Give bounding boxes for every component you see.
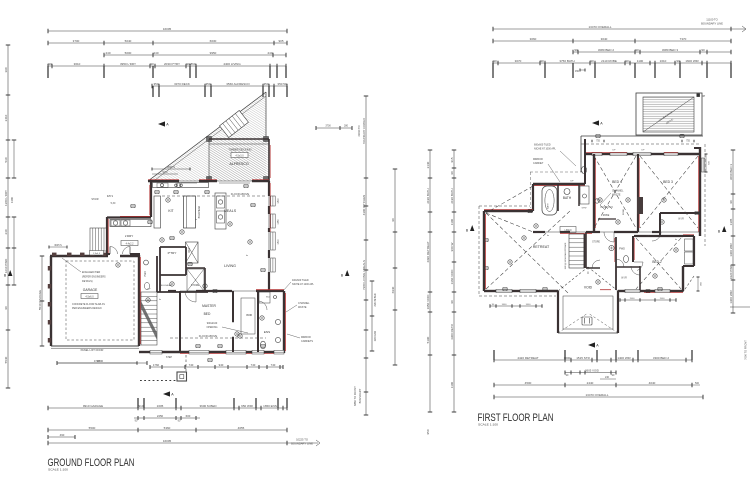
- svg-text:5540: 5540: [4, 356, 8, 363]
- svg-text:500: 500: [695, 382, 700, 385]
- svg-text:2410: 2410: [4, 114, 8, 121]
- svg-text:WASTE: WASTE: [298, 306, 307, 309]
- svg-text:4500: 4500: [525, 381, 532, 385]
- svg-text:DETAILS): DETAILS): [82, 280, 93, 283]
- svg-text:1600: 1600: [526, 304, 532, 306]
- svg-text:1300 WIR: 1300 WIR: [729, 242, 733, 256]
- svg-text:1380 L'DRY: 1380 L'DRY: [4, 190, 8, 206]
- svg-text:5000: 5000: [125, 51, 132, 55]
- svg-text:240: 240: [105, 51, 110, 55]
- svg-text:1305: 1305: [729, 218, 733, 225]
- svg-text:240: 240: [153, 51, 158, 55]
- svg-text:3950 L'DRY: 3950 L'DRY: [120, 62, 136, 66]
- svg-text:90: 90: [493, 59, 497, 63]
- svg-text:DP: DP: [641, 150, 645, 152]
- svg-text:BOUNDARY LINE: BOUNDARY LINE: [291, 441, 313, 445]
- svg-text:10225 TO: 10225 TO: [296, 438, 308, 442]
- svg-text:1605: 1605: [157, 404, 164, 408]
- svg-text:9005 S: 9005 S: [167, 166, 175, 169]
- svg-text:600: 600: [186, 414, 191, 418]
- svg-text:MIRROR: MIRROR: [301, 336, 311, 339]
- svg-text:4.4x2.2: 4.4x2.2: [126, 242, 135, 245]
- svg-text:1100: 1100: [450, 218, 454, 225]
- svg-text:90: 90: [186, 62, 190, 66]
- svg-text:1500: 1500: [660, 298, 666, 300]
- svg-text:1350: 1350: [278, 219, 280, 225]
- svg-text:GPW: GPW: [582, 208, 587, 210]
- svg-text:915: 915: [450, 157, 454, 162]
- svg-text:5,30: 5,30: [111, 202, 116, 205]
- svg-text:5360: 5360: [164, 426, 171, 430]
- svg-text:860: 860: [190, 62, 195, 66]
- svg-text:1760: 1760: [153, 363, 160, 367]
- svg-text:4300 KITCHEN: 4300 KITCHEN: [362, 195, 366, 216]
- svg-text:1600: 1600: [502, 304, 508, 306]
- svg-text:3560 ALFRESCO: 3560 ALFRESCO: [226, 82, 250, 86]
- svg-text:ENS: ENS: [264, 330, 270, 334]
- svg-text:NICHE AT 1200 APL: NICHE AT 1200 APL: [292, 283, 315, 286]
- svg-text:DP: DP: [570, 181, 574, 183]
- svg-text:BED 2: BED 2: [652, 260, 661, 264]
- svg-text:350: 350: [263, 82, 268, 86]
- svg-text:280: 280: [344, 125, 349, 128]
- svg-text:BOUNDARY CORNER: BOUNDARY CORNER: [363, 118, 366, 144]
- svg-text:6630: 6630: [210, 39, 217, 43]
- svg-text:7000 TO FRONT: 7000 TO FRONT: [744, 340, 748, 360]
- svg-text:2960 ENS: 2960 ENS: [375, 330, 377, 341]
- svg-text:90: 90: [48, 62, 52, 66]
- svg-text:21810 TO: 21810 TO: [358, 125, 361, 136]
- svg-text:1380: 1380: [10, 196, 14, 203]
- svg-text:BOUNDARY LINE: BOUNDARY LINE: [701, 22, 723, 26]
- svg-text:90: 90: [450, 171, 454, 175]
- svg-text:2190 BATH: 2190 BATH: [426, 188, 430, 203]
- svg-text:PANEL LIFT DOOR: PANEL LIFT DOOR: [81, 348, 104, 352]
- svg-text:W.I.R: W.I.R: [678, 219, 684, 221]
- svg-text:WASTE: WASTE: [612, 194, 621, 197]
- svg-text:350 50: 350 50: [277, 82, 287, 86]
- svg-text:4040: 4040: [649, 381, 656, 385]
- svg-text:925 S: 925 S: [107, 195, 114, 198]
- svg-text:MIRROR: MIRROR: [533, 158, 543, 161]
- svg-text:MASTER: MASTER: [202, 304, 216, 308]
- svg-text:1950 VOID: 1950 VOID: [426, 294, 430, 310]
- svg-text:900x2100: 900x2100: [207, 322, 218, 325]
- svg-text:3700: 3700: [73, 39, 80, 43]
- svg-text:VOID: VOID: [584, 286, 593, 290]
- svg-text:4.5x3.0: 4.5x3.0: [235, 154, 244, 157]
- svg-text:2960 M BED: 2960 M BED: [375, 293, 377, 306]
- svg-text:ROBE: ROBE: [603, 215, 610, 217]
- svg-text:4.5x6.0: 4.5x6.0: [85, 296, 94, 299]
- svg-text:905: 905: [278, 39, 283, 43]
- svg-text:MEALS: MEALS: [224, 209, 237, 213]
- svg-text:STORE: STORE: [592, 242, 600, 244]
- svg-text:3370 DECK: 3370 DECK: [174, 82, 190, 86]
- svg-text:90: 90: [701, 48, 705, 52]
- svg-text:CHANNEL: CHANNEL: [298, 302, 310, 305]
- svg-text:350: 350: [205, 82, 210, 86]
- svg-text:950 WIR: 950 WIR: [241, 404, 254, 408]
- svg-text:400x600 TILED: 400x600 TILED: [292, 279, 309, 282]
- svg-text:3060 BED 3: 3060 BED 3: [729, 164, 733, 181]
- svg-text:(REFER ENGINEERS: (REFER ENGINEERS: [82, 276, 106, 279]
- svg-text:KIT: KIT: [168, 209, 173, 213]
- svg-text:5540 GARAGE: 5540 GARAGE: [38, 290, 42, 310]
- svg-text:BOUNDARY: BOUNDARY: [358, 388, 362, 403]
- svg-text:16005: 16005: [163, 439, 172, 443]
- svg-text:16R @ HIGH BALUSTRADE: 16R @ HIGH BALUSTRADE: [564, 242, 567, 269]
- svg-text:740: 740: [189, 363, 194, 367]
- svg-text:3060: 3060: [530, 37, 537, 41]
- svg-text:940: 940: [219, 363, 224, 367]
- svg-text:OPENING: OPENING: [206, 326, 217, 329]
- svg-text:240: 240: [4, 229, 8, 234]
- svg-text:90: 90: [574, 48, 578, 52]
- svg-text:CABINET: CABINET: [533, 162, 544, 165]
- svg-text:13470 OVERALL: 13470 OVERALL: [588, 25, 611, 29]
- svg-text:90: 90: [391, 218, 395, 222]
- svg-text:ENGAGED PIER: ENGAGED PIER: [82, 271, 100, 274]
- svg-text:3070: 3070: [515, 59, 522, 63]
- svg-text:GARAGE: GARAGE: [83, 288, 98, 292]
- svg-text:ROBE: ROBE: [623, 208, 625, 215]
- svg-text:3300 BED 2: 3300 BED 2: [653, 356, 670, 360]
- svg-text:TIMBER DECKING: TIMBER DECKING: [228, 148, 251, 152]
- svg-text:LINEN: LINEN: [565, 230, 572, 232]
- svg-text:1600 WIR: 1600 WIR: [685, 59, 699, 63]
- svg-text:PWD: PWD: [619, 248, 625, 251]
- svg-text:REF: REF: [189, 247, 191, 252]
- svg-text:2030 P'TRY: 2030 P'TRY: [164, 62, 180, 66]
- svg-text:9910 GARAGE: 9910 GARAGE: [83, 404, 103, 408]
- svg-text:16005: 16005: [163, 27, 172, 31]
- svg-text:9950: 9950: [210, 51, 217, 55]
- svg-text:350: 350: [153, 82, 158, 86]
- svg-text:5040: 5040: [125, 39, 132, 43]
- svg-text:BATH: BATH: [547, 203, 550, 209]
- svg-text:1100: 1100: [450, 381, 454, 388]
- svg-text:PWD: PWD: [144, 271, 147, 277]
- svg-text:BATH: BATH: [563, 196, 572, 200]
- svg-text:W.I.R: W.I.R: [621, 278, 627, 280]
- svg-text:1810: 1810: [278, 239, 280, 245]
- svg-text:DP: DP: [702, 96, 706, 98]
- svg-text:11100 TO: 11100 TO: [706, 18, 717, 22]
- svg-text:3700: 3700: [325, 125, 331, 128]
- svg-text:490: 490: [60, 433, 65, 437]
- svg-text:3080 BED 2: 3080 BED 2: [598, 48, 615, 52]
- svg-text:4390 RETREAT: 4390 RETREAT: [426, 241, 430, 262]
- svg-text:90: 90: [635, 48, 639, 52]
- svg-text:CABINETS: CABINETS: [301, 340, 313, 343]
- svg-text:950: 950: [426, 429, 430, 434]
- svg-text:DP: DP: [612, 150, 616, 152]
- svg-text:530: 530: [4, 157, 8, 162]
- svg-text:3750 BATH: 3750 BATH: [559, 59, 574, 63]
- svg-text:240: 240: [267, 51, 272, 55]
- svg-text:FLOOR ABOVE: FLOOR ABOVE: [199, 334, 218, 338]
- svg-text:90: 90: [540, 59, 544, 63]
- svg-text:FLOOR ABOVE: FLOOR ABOVE: [231, 192, 250, 196]
- svg-text:UP: UP: [147, 289, 151, 291]
- svg-text:STAIR: STAIR: [91, 198, 98, 201]
- svg-text:7280 LIVING / MEALS: 7280 LIVING / MEALS: [362, 260, 366, 290]
- svg-text:740: 740: [271, 363, 276, 367]
- svg-text:90: 90: [625, 59, 629, 63]
- svg-text:4400 LIVING: 4400 LIVING: [223, 62, 241, 66]
- svg-text:SCALE 1:100: SCALE 1:100: [478, 423, 498, 427]
- svg-text:600x600 TILED: 600x600 TILED: [534, 144, 551, 147]
- svg-text:3045 S: 3045 S: [54, 244, 62, 247]
- svg-text:13470 OVERALL: 13470 OVERALL: [585, 393, 608, 397]
- svg-text:BULKHEAD: BULKHEAD: [198, 205, 201, 218]
- svg-text:BED 4: BED 4: [612, 180, 622, 184]
- svg-text:5500: 5500: [89, 426, 96, 430]
- svg-text:6940: 6940: [391, 286, 395, 293]
- svg-text:390: 390: [4, 67, 8, 72]
- svg-text:3610: 3610: [74, 62, 81, 66]
- svg-text:1810: 1810: [278, 198, 280, 204]
- svg-text:L'DRY: L'DRY: [125, 234, 134, 238]
- svg-text:1515 STR: 1515 STR: [576, 356, 590, 360]
- svg-text:240: 240: [605, 376, 610, 379]
- svg-text:1920 PWD: 1920 PWD: [729, 264, 733, 279]
- svg-text:910: 910: [138, 404, 143, 408]
- svg-text:90: 90: [150, 62, 154, 66]
- svg-text:90: 90: [450, 300, 454, 304]
- svg-text:90: 90: [590, 59, 594, 63]
- svg-text:5190: 5190: [426, 336, 430, 343]
- svg-text:STEP: STEP: [166, 356, 173, 359]
- svg-text:1610: 1610: [660, 59, 667, 63]
- svg-text:1360 VOID: 1360 VOID: [450, 269, 454, 285]
- svg-text:3040: 3040: [601, 37, 608, 41]
- svg-text:4700: 4700: [94, 359, 101, 363]
- svg-text:1100: 1100: [637, 59, 644, 63]
- svg-text:90: 90: [4, 306, 8, 310]
- svg-text:450: 450: [575, 70, 580, 73]
- svg-text:BED 3: BED 3: [663, 180, 673, 184]
- svg-text:W70: W70: [163, 171, 169, 174]
- svg-text:1650 ENS: 1650 ENS: [263, 404, 277, 408]
- svg-text:4420 RETREAT: 4420 RETREAT: [517, 356, 538, 360]
- svg-text:1,9x4,5: 1,9x4,5: [93, 253, 101, 255]
- svg-text:PER ENGINEERS DESIGN: PER ENGINEERS DESIGN: [72, 307, 102, 310]
- svg-text:3080 BED 3: 3080 BED 3: [662, 48, 679, 52]
- svg-text:90: 90: [729, 200, 733, 204]
- svg-text:CONCRETE FLOOR SLAB AS: CONCRETE FLOOR SLAB AS: [72, 303, 105, 306]
- svg-text:P'TRY: P'TRY: [168, 251, 177, 255]
- svg-text:1400 WIR: 1400 WIR: [617, 356, 631, 360]
- svg-text:4300 RETR: 4300 RETR: [450, 323, 454, 340]
- svg-text:1210 PWD: 1210 PWD: [4, 258, 8, 273]
- svg-text:740: 740: [251, 363, 256, 367]
- svg-text:90: 90: [676, 59, 680, 63]
- svg-text:7370: 7370: [680, 37, 687, 41]
- svg-text:2440: 2440: [587, 381, 594, 385]
- svg-text:WIR: WIR: [246, 313, 253, 317]
- svg-text:2190 BATH: 2190 BATH: [450, 188, 454, 203]
- svg-text:STORE: STORE: [191, 284, 200, 287]
- svg-text:1300 WIR: 1300 WIR: [729, 289, 733, 303]
- svg-text:1500: 1500: [630, 298, 636, 300]
- svg-text:SCALE 1:100: SCALE 1:100: [48, 468, 68, 472]
- svg-text:2140: 2140: [426, 161, 430, 168]
- svg-text:2605 VOID: 2605 VOID: [585, 369, 599, 373]
- svg-text:960 W: 960 W: [450, 242, 454, 251]
- svg-text:2110 ROBE: 2110 ROBE: [601, 59, 617, 63]
- svg-text:RETREAT: RETREAT: [533, 245, 550, 249]
- svg-text:ALFRESCO: ALFRESCO: [229, 162, 249, 166]
- svg-text:LIVING: LIVING: [224, 264, 236, 268]
- svg-text:6860 TO FRONT: 6860 TO FRONT: [353, 386, 357, 406]
- svg-text:4655: 4655: [238, 426, 245, 430]
- svg-text:3600 M.BED: 3600 M.BED: [199, 404, 217, 408]
- svg-text:BED: BED: [204, 312, 211, 316]
- svg-text:2450: 2450: [157, 414, 164, 418]
- svg-text:NICHE AT 1000 APL: NICHE AT 1000 APL: [534, 148, 557, 151]
